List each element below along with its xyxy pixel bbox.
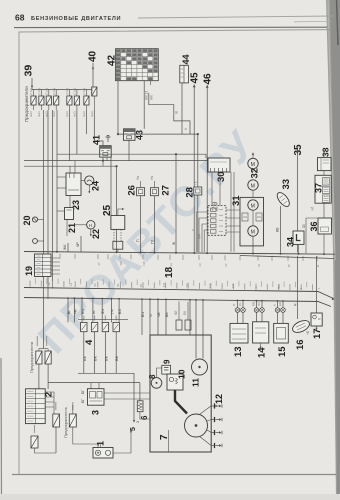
wire horizontal H382 <box>48 382 140 384</box>
relay 4-2 tiny label <box>94 316 96 321</box>
fuse F8 (offset) <box>92 87 97 96</box>
svg-text:БГ: БГ <box>81 390 85 394</box>
svg-text:31: 31 <box>257 263 261 267</box>
fuse 26 <box>137 188 145 196</box>
wire connector 19 lead 2 <box>51 261 60 263</box>
wire fuse F5 bottom lead <box>68 105 70 110</box>
svg-text:БК: БК <box>183 311 187 315</box>
svg-text:ЗЧ: ЗЧ <box>101 309 105 314</box>
connector 2 <box>26 389 46 424</box>
svg-text:44: 44 <box>181 54 191 64</box>
svg-text:42: 42 <box>107 54 118 66</box>
bus C junction dots <box>67 297 284 302</box>
wire drop to box 7 n2 <box>149 299 151 335</box>
wire drop to 28 <box>197 134 199 188</box>
relay 38 <box>318 158 332 171</box>
svg-text:38a: 38a <box>277 284 281 289</box>
fuse L1 <box>36 351 42 364</box>
unit 17 <box>311 313 322 326</box>
svg-text:19: 19 <box>24 266 34 276</box>
sensor 33 (oval) <box>275 190 292 208</box>
wire 23 to 21 <box>69 196 71 208</box>
fuse M2 tiny label <box>72 402 74 410</box>
svg-text:20: 20 <box>22 215 32 225</box>
wire table 42 left drop <box>117 81 119 134</box>
wire fuse F5 top lead <box>68 90 70 97</box>
wire battery riser <box>130 431 132 453</box>
wire connector 44 drop <box>181 83 183 134</box>
sensor 16 (oval) <box>291 318 312 335</box>
wire battery right lead <box>113 452 131 454</box>
svg-text:2: 2 <box>44 392 54 397</box>
wire drop to box 7 n1 <box>141 299 143 335</box>
svg-text:3a: 3a <box>47 282 51 286</box>
wire connector 19 lead 4 <box>51 269 60 271</box>
svg-text:35: 35 <box>287 264 291 268</box>
wire fuse F4 bottom lead <box>55 105 57 110</box>
svg-text:11: 11 <box>191 378 201 387</box>
svg-text:Кч: Кч <box>238 302 242 306</box>
wire fuse M3 drop <box>35 448 57 453</box>
svg-text:№13: №13 <box>65 111 69 117</box>
wire into relay 41 <box>94 110 103 146</box>
svg-text:33: 33 <box>281 179 292 190</box>
connector table 42 <box>116 49 159 81</box>
wire drop to coil 11 a <box>195 300 197 359</box>
wire horizontal H373 <box>78 372 134 374</box>
svg-text:Кч: Кч <box>150 176 154 180</box>
svg-text:41: 41 <box>92 135 102 145</box>
fuse M1 tiny label <box>55 402 57 410</box>
wire vertical F <box>76 110 78 154</box>
fuse M3 tiny label <box>34 425 36 433</box>
wire 46 drop <box>206 85 208 252</box>
fuse L2 <box>45 351 51 364</box>
svg-text:M: M <box>251 162 255 168</box>
svg-text:ЖЧ: ЖЧ <box>198 234 202 239</box>
wire vertical G <box>85 110 87 134</box>
wire fuse M2 top lead <box>72 405 74 414</box>
bus B pin tick labels <box>30 278 313 290</box>
connector 29 (dashed) <box>208 206 226 236</box>
svg-text:ВК: ВК <box>93 355 98 361</box>
svg-text:94: 94 <box>93 283 97 287</box>
wire 45 drop <box>193 85 195 253</box>
wire 40 drop <box>92 63 94 87</box>
svg-text:П: П <box>136 239 140 242</box>
wire fuse 28 drop <box>197 195 199 252</box>
wire connector pair lead 1 <box>178 302 180 321</box>
wire fuse F1 bottom lead <box>33 105 35 110</box>
relay unit 43 <box>124 129 136 141</box>
wire drop to relay row 6 <box>110 299 112 323</box>
svg-text:31: 31 <box>231 195 242 206</box>
svg-text:25: 25 <box>102 204 113 216</box>
wire fuse 26 top <box>140 181 142 188</box>
svg-text:№13: №13 <box>73 111 77 117</box>
wire drop to 17 <box>316 256 318 313</box>
wire relay 4-2 drop <box>94 332 96 374</box>
wire relay 41 to unit 25 <box>110 157 112 215</box>
svg-text:К: К <box>184 128 188 130</box>
wire 23 left lead 2 <box>57 187 66 189</box>
svg-text:(7,5A): (7,5A) <box>90 88 94 95</box>
connector 19 <box>35 254 52 277</box>
wire 24 ground lead <box>88 185 90 192</box>
wire 23 left lead 1 <box>57 176 66 178</box>
fuse F1 <box>31 96 36 105</box>
wire 21 to 22 <box>74 224 87 226</box>
svg-text:M: M <box>251 203 255 209</box>
page edge shadow band (right) <box>326 0 340 500</box>
wire unit 3 to box 7 lead 2 <box>104 398 150 400</box>
svg-text:№13: №13 <box>37 111 41 117</box>
wire motor 32 to unit 31 <box>252 190 254 197</box>
svg-text:9: 9 <box>163 359 172 364</box>
wire 29 to 31 lead 2 <box>226 217 240 219</box>
svg-text:113: 113 <box>208 283 212 288</box>
fuse M3 <box>31 436 38 448</box>
wire 30 drop a <box>230 172 232 252</box>
svg-text:37: 37 <box>314 183 324 193</box>
wire connector 2 lead 4 <box>45 406 54 408</box>
wire vertical E <box>68 110 70 161</box>
relay 4-4 <box>113 322 119 331</box>
wire drop to relay row 3 <box>81 298 83 322</box>
svg-text:№13: №13 <box>90 111 94 117</box>
wire relay 41 lead 1 <box>102 157 104 166</box>
wire drop to box 7 n5 <box>189 300 191 335</box>
wire inside 31 <box>252 210 254 226</box>
svg-text:К: К <box>273 304 277 306</box>
wire fuse L1 top <box>38 349 40 352</box>
wire 23 to 24 <box>81 180 85 182</box>
wire 30 to 29 lead 1 <box>211 172 213 206</box>
wire ZhK drop <box>67 243 69 252</box>
svg-text:ГЧ: ГЧ <box>110 309 114 314</box>
svg-text:5: 5 <box>130 427 137 431</box>
arrow 35 <box>296 150 299 153</box>
wire connector 19 lead 5 <box>51 273 60 275</box>
wire 38 to 37 <box>323 171 325 176</box>
svg-text:68: 68 <box>15 13 25 23</box>
svg-text:10: 10 <box>177 369 187 379</box>
header rule <box>14 26 327 28</box>
wire bus to 29 lead 1 <box>196 212 208 252</box>
unit 34 <box>293 231 304 244</box>
unit 31 enclosure <box>240 197 264 246</box>
spark plug 3 <box>211 430 222 435</box>
unit 30 <box>208 158 230 172</box>
svg-text:39: 39 <box>23 65 35 77</box>
wire horizontal H166 <box>24 165 117 167</box>
upper page edge line <box>138 16 334 18</box>
fuse F3 <box>46 96 51 105</box>
wire fuse F4 top lead <box>55 90 57 97</box>
fuse 28 <box>194 187 202 195</box>
bottom page shade <box>0 494 340 500</box>
wire switch 20 lead <box>38 219 44 221</box>
svg-text:27: 27 <box>160 185 171 196</box>
svg-text:Кч: Кч <box>136 176 140 180</box>
relay 4-4 tiny label <box>115 316 117 321</box>
bus A junction dots <box>56 251 325 255</box>
wire fuse L1 drop <box>38 364 40 389</box>
breaker 8 <box>151 378 162 389</box>
svg-text:Предохранители: Предохранители <box>29 342 34 373</box>
wire 25 bottom lead <box>117 249 119 252</box>
arrow motor 32 feed <box>252 153 254 155</box>
wire 35 drop <box>296 150 298 253</box>
svg-text:БВ: БВ <box>252 302 256 306</box>
svg-text:119: 119 <box>142 261 146 266</box>
svg-text:КЧ: КЧ <box>81 309 85 314</box>
motor 31 upper <box>248 200 258 210</box>
fuse 27 <box>151 188 159 196</box>
wire 25 top lead <box>118 209 123 216</box>
svg-text:34: 34 <box>286 237 296 247</box>
wire 21 left lead <box>57 210 65 212</box>
svg-text:147: 147 <box>231 283 235 288</box>
svg-text:ВК: ВК <box>82 355 87 361</box>
svg-text:№13: №13 <box>29 111 33 117</box>
svg-text:26: 26 <box>127 185 138 196</box>
wire fuse L feed <box>39 348 48 350</box>
distributor spoke lines <box>199 406 211 446</box>
bus A tiny numbers <box>97 261 320 268</box>
wire relay 41 lead 2 <box>106 157 108 161</box>
svg-text:БЕНЗИНОВЫЕ ДВИГАТЕЛИ: БЕНЗИНОВЫЕ ДВИГАТЕЛИ <box>31 16 121 22</box>
svg-text:M: M <box>251 183 255 189</box>
fuse F2 <box>39 96 44 105</box>
wire 21 bottom lead <box>66 220 68 237</box>
wire 37 to 36 <box>323 203 325 218</box>
wire inside box 7 <box>168 430 170 452</box>
wire fuse F7 bottom lead <box>85 105 87 110</box>
svg-text:БК: БК <box>165 312 169 317</box>
relay drops to units 13-15 <box>237 300 239 307</box>
HT lead (thick) <box>175 390 187 414</box>
spark plug 2 <box>211 417 222 422</box>
svg-text:23: 23 <box>224 263 228 267</box>
wire horizontal H160 <box>24 160 208 162</box>
arrow under label 12 <box>215 405 217 407</box>
arrow 45 <box>193 85 196 88</box>
unit 25 <box>111 216 125 230</box>
wire drop to relay row 5 <box>101 299 103 323</box>
svg-text:12: 12 <box>214 394 224 404</box>
svg-text:ЮГ: ЮГ <box>174 310 178 315</box>
battery 1 <box>93 448 113 459</box>
bus A pin labels <box>60 254 317 261</box>
wire 25 dashed 1 <box>113 229 115 241</box>
svg-text:M: M <box>251 229 255 235</box>
svg-text:115: 115 <box>119 261 123 266</box>
wire relay 4-1 drop <box>83 332 85 374</box>
svg-text:17: 17 <box>312 328 323 339</box>
wire table 42 stub <box>150 81 152 85</box>
ground point O <box>33 239 38 244</box>
fuse L2 tiny label <box>46 336 48 346</box>
wire fuse F8 bottom lead <box>93 96 95 110</box>
wire connector 2 lead 1 <box>45 391 54 393</box>
wire fuse M2 to battery <box>73 427 98 448</box>
svg-text:(7,5A): (7,5A) <box>37 88 41 95</box>
arrow under 17 <box>315 328 317 330</box>
svg-text:(7,5A): (7,5A) <box>73 88 77 95</box>
motor 31 lower <box>248 226 258 236</box>
wire drop to box 7 n4 <box>165 299 167 335</box>
svg-text:Ж: Ж <box>92 310 96 314</box>
wire ChR drop <box>80 236 82 252</box>
svg-text:32: 32 <box>250 168 261 179</box>
wire 8 to 9 <box>157 368 162 378</box>
svg-text:30: 30 <box>302 224 306 228</box>
wire connector 19 lead 1 <box>51 257 60 259</box>
wire between motors 32 <box>252 169 254 172</box>
wire 22 ground <box>90 229 92 235</box>
bus line C <box>24 298 331 307</box>
wire bus to 29 lead 2 <box>199 218 208 252</box>
unit 36 <box>318 218 332 234</box>
distributor 7 rotor <box>185 414 208 437</box>
svg-text:(7,5A): (7,5A) <box>82 88 86 95</box>
svg-text:(7,5A): (7,5A) <box>65 88 69 95</box>
wire 29 to 31 lead 4 <box>226 231 240 233</box>
fuse L1 tiny label <box>36 336 38 346</box>
wire drop to coil 11 b <box>202 300 204 359</box>
relay unit 41 <box>100 146 112 158</box>
spark plug 4 <box>211 443 222 448</box>
svg-text:18: 18 <box>164 266 175 278</box>
fuse unit 37 <box>315 175 331 203</box>
ignition box 7 <box>150 335 211 452</box>
svg-text:36: 36 <box>309 221 319 231</box>
wire fuse 27 top <box>154 181 156 188</box>
svg-text:35: 35 <box>293 144 304 156</box>
svg-text:(7,5A): (7,5A) <box>29 88 33 95</box>
wire fuse L2 top <box>47 349 49 352</box>
svg-text:Предохранитель: Предохранитель <box>63 407 68 438</box>
wire Zh drop <box>175 154 177 252</box>
unit 25 lower block <box>113 241 123 249</box>
bus line B <box>24 288 334 299</box>
wire 30 drop b <box>233 172 235 252</box>
wire battery label lead <box>100 444 102 448</box>
svg-text:3: 3 <box>91 410 101 415</box>
wire connector 2 lead 2 <box>45 396 54 398</box>
wire fuse F6 top lead <box>76 90 78 97</box>
relay 4-3 <box>102 322 108 331</box>
fuse M1 <box>53 414 60 427</box>
page edge highlight line <box>337 0 339 45</box>
bus line A2 (right half) <box>240 256 334 259</box>
fuse F4 <box>54 96 59 105</box>
wire unit 3 top lead 1 <box>90 383 92 389</box>
svg-text:ЧК: ЧК <box>157 311 161 317</box>
wire fuse F3 top lead <box>48 90 50 97</box>
wire 38 top lead <box>323 152 325 158</box>
wire arrow drop x134 <box>133 373 135 421</box>
fuse M2 <box>69 414 76 427</box>
wire fuse 26 drop <box>140 196 142 252</box>
wire bus vertical C <box>52 110 54 289</box>
ignition coil 10 <box>167 374 183 390</box>
wire fuse L2 drop <box>47 364 49 389</box>
svg-text:ГК: ГК <box>194 181 198 185</box>
bus B tiny numbers <box>47 282 321 289</box>
wire 30 to 29 lead 2 <box>219 172 221 206</box>
wire step from 42 to right <box>149 93 190 134</box>
svg-text:ЕО: ЕО <box>278 301 282 306</box>
wire 34 bottom lead <box>298 244 300 253</box>
svg-text:ЖК 13: ЖК 13 <box>145 91 149 100</box>
upper page edge line 2 <box>294 20 331 22</box>
wire drop to box 7 n3 <box>157 299 159 335</box>
wire fuse M1 drop <box>55 427 57 453</box>
svg-text:БЗ: БЗ <box>118 309 122 314</box>
svg-text:92: 92 <box>139 284 143 288</box>
arrow 46 <box>206 85 209 88</box>
wire relay 43 bottom lead <box>128 140 130 160</box>
wire connector 19 lead 3 <box>51 265 60 267</box>
svg-text:29: 29 <box>210 201 220 211</box>
svg-text:45: 45 <box>190 72 201 84</box>
wire drop to relay row 4 <box>92 298 94 322</box>
connector 44 <box>180 65 189 83</box>
svg-text:16: 16 <box>295 339 306 350</box>
wire drop to relay row 7 <box>118 299 120 323</box>
unit 14 <box>253 322 269 343</box>
unit 21 <box>65 208 74 220</box>
svg-text:40: 40 <box>88 50 99 62</box>
bus line A <box>24 252 335 255</box>
wire unit 3 top lead 2 <box>98 383 100 389</box>
wire 39 riser <box>31 78 33 90</box>
svg-text:КВ: КВ <box>276 227 280 232</box>
wire fuse F7 top lead <box>85 90 87 97</box>
wire bus vertical B <box>47 110 49 299</box>
wire drop to relay row 1 <box>67 298 69 322</box>
svg-text:8: 8 <box>148 374 157 379</box>
wire 29 to 31 lead 1 <box>226 209 240 211</box>
svg-text:15: 15 <box>277 346 288 357</box>
wire fuse 27 drop <box>154 196 156 252</box>
wire bus vertical A <box>43 110 45 349</box>
svg-text:Гб: Гб <box>151 240 155 244</box>
fuse F5 <box>67 96 72 105</box>
svg-text:37: 37 <box>97 262 101 266</box>
svg-text:№13: №13 <box>82 111 86 117</box>
svg-text:13: 13 <box>198 263 202 267</box>
motor 32 lower <box>248 180 258 190</box>
svg-text:ЖК: ЖК <box>63 244 67 250</box>
svg-text:3: 3 <box>136 421 140 423</box>
gauge 24 <box>85 176 94 185</box>
unit 3 <box>88 389 105 406</box>
fuse F6 <box>74 96 79 105</box>
capacitor 9 <box>162 365 171 374</box>
wire bus to 29 lead 3 <box>202 224 208 252</box>
fuse F7 <box>84 96 89 105</box>
wire resistor 6 to box 7 <box>140 412 150 419</box>
wire bus vertical D <box>56 110 58 252</box>
svg-text:46: 46 <box>203 73 214 85</box>
svg-text:21: 21 <box>67 223 77 233</box>
small connector pair above box 7 <box>176 320 191 330</box>
ignition switch 11 <box>192 359 208 375</box>
wire 36 feed <box>306 218 318 253</box>
